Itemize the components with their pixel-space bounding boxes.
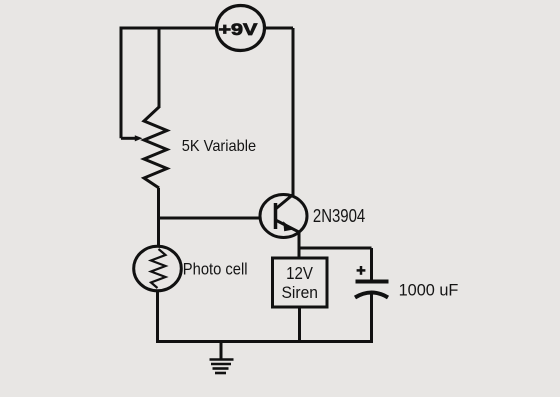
photo cell bbox=[134, 246, 182, 291]
svg-text:2N3904: 2N3904 bbox=[313, 206, 365, 226]
transistor Q1 2N3904 bbox=[260, 28, 307, 238]
wire potentiometer bottom lead down to photo cell bbox=[157, 188, 160, 247]
wire bottom rail bbox=[157, 340, 372, 343]
resistor R1 5K variable (potentiometer zigzag) bbox=[144, 107, 167, 188]
wire siren bottom lead bbox=[298, 307, 301, 342]
siren U1 12V box bbox=[273, 258, 328, 307]
wire potentiometer top lead bbox=[158, 27, 161, 109]
ground bbox=[210, 342, 234, 374]
svg-text:Photo cell: Photo cell bbox=[183, 260, 248, 278]
wire emitter node to capacitor bbox=[299, 247, 372, 250]
wire photo cell bottom lead bbox=[156, 290, 159, 343]
wire emitter down to siren bbox=[298, 231, 301, 258]
svg-text:1000 uF: 1000 uF bbox=[399, 282, 459, 300]
svg-text:+9V: +9V bbox=[219, 20, 259, 39]
wire top rail from left corner to +9V and on to collector drop bbox=[121, 27, 293, 30]
wiper arrow into potentiometer bbox=[121, 135, 143, 141]
svg-text:Siren: Siren bbox=[282, 283, 319, 302]
label 2N3904 bbox=[313, 206, 365, 226]
wire left vertical (wiper feed) bbox=[120, 27, 123, 139]
label 1000 uF bbox=[399, 282, 459, 300]
capacitor C1 1000 uF bbox=[355, 248, 389, 343]
label Photo cell bbox=[183, 260, 248, 278]
power +9V bbox=[217, 6, 265, 51]
svg-text:5K Variable: 5K Variable bbox=[182, 138, 256, 155]
label 5K Variable bbox=[182, 138, 256, 155]
wire base from divider node to transistor bbox=[159, 217, 277, 220]
svg-text:12V: 12V bbox=[286, 263, 313, 283]
